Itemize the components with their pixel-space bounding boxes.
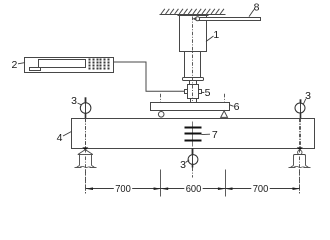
svg-text:1: 1 bbox=[213, 29, 219, 41]
svg-text:700: 700 bbox=[115, 183, 131, 195]
svg-text:4: 4 bbox=[57, 132, 63, 144]
svg-text:2: 2 bbox=[11, 59, 17, 71]
svg-text:3: 3 bbox=[71, 95, 77, 107]
svg-text:5: 5 bbox=[205, 87, 211, 99]
svg-text:3: 3 bbox=[305, 90, 311, 102]
svg-text:600: 600 bbox=[186, 183, 202, 195]
svg-text:3: 3 bbox=[180, 159, 186, 171]
svg-text:7: 7 bbox=[212, 129, 218, 141]
svg-text:6: 6 bbox=[234, 101, 240, 113]
svg-text:8: 8 bbox=[254, 2, 260, 14]
svg-text:700: 700 bbox=[253, 183, 269, 195]
